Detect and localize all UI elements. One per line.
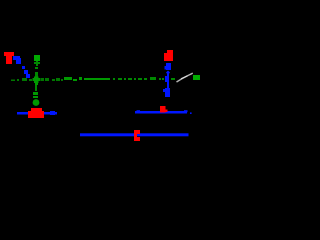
- wire (green horizontal net, middle with marks): [64, 77, 110, 81]
- wire (green horizontal net, left dashes): [11, 78, 63, 81]
- component body (red, bottom-left): [28, 108, 44, 118]
- wire (blue dimension line, lower): [80, 133, 189, 136]
- wire (blue diagonal pointer from label to net): [13, 56, 30, 78]
- wire (blue vertical, right): [165, 74, 169, 88]
- pin square (green pad, top of vertical net): [34, 55, 40, 61]
- terminal block (green, right edge): [193, 75, 200, 80]
- node label 1 (red, right): [164, 50, 173, 61]
- wire (green vertical net, dashed): [34, 61, 40, 91]
- connection dot (green circle above component): [33, 92, 40, 106]
- junction (green cross node): [33, 77, 41, 86]
- pin label 1 (blue, lower): [163, 88, 170, 97]
- value label (red bowtie, on lower dimension line): [134, 130, 140, 141]
- wire (blue dimension line, upper right): [135, 110, 192, 114]
- value label (red, on upper dimension line): [160, 106, 168, 113]
- node label 7 R1 (red, top-left): [4, 52, 14, 64]
- probe curve (gray): [177, 73, 193, 82]
- wire (green horizontal net, dot-dash right of middle): [113, 77, 175, 80]
- wire (blue left lead of component): [17, 112, 28, 115]
- wire (blue right lead of component): [44, 111, 57, 115]
- pin label 1 (blue, upper): [165, 63, 172, 76]
